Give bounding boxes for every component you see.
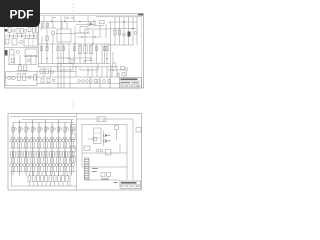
- wire: [59, 142, 61, 148]
- pointer mark: [114, 182, 118, 183]
- wire: [106, 67, 108, 77]
- resistor RB3: [33, 152, 35, 158]
- transistor QB0: [13, 139, 16, 142]
- diode DA4: [36, 164, 39, 167]
- wire: [112, 52, 114, 63]
- wire array top bus: [10, 116, 76, 118]
- wire: [108, 69, 125, 71]
- wire lowest bus: [12, 185, 77, 187]
- wire: [72, 142, 74, 148]
- wire step: [97, 64, 99, 71]
- title text: [132, 82, 140, 83]
- diode DA1: [16, 164, 19, 167]
- relay detail: [32, 39, 34, 47]
- wire: [35, 55, 37, 65]
- wire: [49, 172, 51, 176]
- transistor Q5: [93, 21, 96, 24]
- connector J1: [5, 29, 8, 32]
- wire: [96, 67, 98, 77]
- wire: [70, 136, 73, 138]
- wire: [62, 167, 64, 172]
- transistor QA1: [16, 139, 19, 142]
- wire: [123, 17, 125, 45]
- resistor R101: [18, 127, 20, 132]
- wire column spine: [12, 123, 14, 176]
- transistor Q13: [97, 80, 100, 83]
- wire: [114, 17, 116, 45]
- resistor R27: [18, 74, 21, 81]
- diode D20: [93, 137, 97, 141]
- label text: [53, 17, 56, 18]
- node: [94, 36, 95, 37]
- wire: [20, 158, 22, 164]
- wire: [56, 33, 76, 35]
- title text: [126, 186, 129, 187]
- resistor power: [78, 46, 81, 54]
- transistor QB6: [52, 139, 55, 142]
- wire: [84, 29, 86, 44]
- diode DB7: [59, 164, 62, 167]
- resistor RB0: [14, 152, 16, 158]
- pin header rung: [85, 169, 90, 171]
- wire: [33, 142, 35, 148]
- wire: [75, 67, 77, 77]
- pin header rung: [85, 162, 90, 164]
- wire: [74, 44, 76, 64]
- title block top sheet: [120, 78, 142, 89]
- connector CN2: [136, 128, 141, 133]
- title block divider: [129, 185, 131, 189]
- wire: [123, 76, 125, 77]
- wire: [43, 167, 45, 172]
- wire: [17, 158, 19, 164]
- bottom schematic border frame: [8, 114, 142, 191]
- resistor RB5: [46, 152, 48, 158]
- diode DB3: [33, 164, 36, 167]
- diode bridge D4: [78, 80, 81, 83]
- wire: [54, 182, 56, 186]
- wire: [66, 167, 68, 172]
- wire: [37, 172, 39, 176]
- node: [87, 69, 88, 70]
- top schematic inner right border: [140, 14, 142, 88]
- wire column spine: [32, 120, 34, 176]
- resistor RA5: [43, 152, 45, 158]
- wire: [76, 24, 96, 26]
- transistor QA9: [68, 139, 71, 142]
- fold mark top: [72, 3, 75, 5]
- wire stepped bus: [22, 119, 74, 121]
- wire: [57, 77, 59, 88]
- resistor RC8: [62, 176, 65, 182]
- wire stepped bus: [13, 122, 74, 124]
- wire column spine: [51, 123, 53, 176]
- diode bridge D5: [82, 80, 85, 83]
- diode DA5: [42, 164, 45, 167]
- transistor QA5: [42, 139, 45, 142]
- wire: [46, 137, 48, 139]
- wire: [85, 44, 87, 64]
- resistor RB9: [72, 152, 74, 158]
- diode DA3: [29, 164, 32, 167]
- inductor L9: [73, 128, 75, 130]
- wire: [46, 158, 48, 164]
- wire: [49, 137, 51, 139]
- wire: [128, 17, 130, 45]
- wire column spine: [45, 120, 47, 176]
- wire: [30, 137, 32, 139]
- capacitor C17: [47, 23, 49, 27]
- wire: [56, 142, 58, 148]
- resistor: [46, 47, 48, 51]
- resistor power: [89, 46, 92, 54]
- transistor Q15: [134, 32, 137, 35]
- resistor: [103, 47, 105, 51]
- wire: [33, 182, 35, 186]
- resistor RC9: [66, 176, 69, 182]
- transistor QA4: [36, 139, 39, 142]
- wire: [49, 182, 51, 186]
- fold mark middle: [72, 107, 75, 109]
- component cluster: [101, 173, 105, 177]
- wire: [72, 137, 74, 139]
- wire column spine: [71, 120, 73, 176]
- pin header rung: [85, 159, 90, 161]
- transistor Q21: [103, 134, 106, 137]
- wire: [31, 136, 34, 138]
- transistor QB4: [39, 139, 42, 142]
- wire: [110, 28, 137, 30]
- transistor QB7: [59, 139, 62, 142]
- transistor Q24: [100, 149, 103, 152]
- resistor R105: [44, 127, 46, 132]
- wire: [10, 158, 12, 164]
- inductor L7: [60, 128, 62, 130]
- wire: [88, 138, 93, 140]
- transistor Q1: [12, 29, 15, 32]
- resistor RC4: [45, 176, 48, 182]
- wire: [30, 142, 32, 148]
- resistor R103: [31, 127, 33, 132]
- wire: [62, 142, 64, 148]
- capacitor C22: [71, 146, 76, 152]
- transistor Q9: [8, 76, 12, 80]
- inductor L4: [40, 128, 42, 130]
- label text: [101, 179, 109, 180]
- wire: [69, 67, 71, 77]
- wire: [61, 22, 63, 30]
- resistor R7: [6, 39, 10, 44]
- wire: [89, 179, 120, 181]
- wire: [41, 36, 43, 44]
- fold mark top: [72, 7, 75, 9]
- wire: [82, 152, 127, 154]
- wire: [36, 33, 38, 39]
- wire: [24, 56, 38, 58]
- resistor: [40, 47, 42, 51]
- diode D3: [10, 50, 15, 56]
- wire: [24, 33, 26, 39]
- inductor L3: [34, 128, 36, 130]
- wire: [63, 136, 66, 138]
- resistor R3: [20, 29, 23, 34]
- transistor Q12: [51, 70, 54, 73]
- wire: [13, 55, 15, 65]
- component cluster: [107, 173, 111, 177]
- transistor Q10: [12, 76, 16, 80]
- transistor Q21 emitter: [105, 135, 107, 136]
- transistor QA0: [10, 139, 13, 142]
- wire: [53, 142, 55, 148]
- wire: [23, 142, 25, 148]
- wire: [5, 47, 39, 49]
- node: [46, 43, 47, 44]
- wire: [57, 67, 59, 77]
- wire: [33, 167, 35, 172]
- wire: [45, 172, 47, 176]
- wire: [27, 167, 29, 172]
- wire: [69, 77, 71, 88]
- wire step: [79, 67, 81, 70]
- wire: [17, 137, 19, 139]
- pin header J3: [85, 158, 90, 180]
- wire: [119, 17, 121, 45]
- label text: [66, 18, 69, 19]
- wire: [45, 182, 47, 186]
- resistor RB6: [53, 152, 55, 158]
- capacitor C9: [24, 66, 27, 70]
- resistor RA7: [56, 152, 58, 158]
- wire: [64, 15, 66, 21]
- title text: [121, 186, 124, 187]
- title text: [136, 186, 140, 187]
- resistor R29: [34, 75, 37, 81]
- wire: [36, 137, 38, 139]
- wire: [136, 17, 138, 45]
- wire: [43, 15, 45, 21]
- diode DB2: [26, 164, 29, 167]
- wire: [46, 142, 48, 148]
- title block divider: [120, 84, 142, 86]
- wire: [59, 137, 61, 139]
- wire: [49, 142, 51, 148]
- transistor Q11: [28, 76, 31, 79]
- wire: [101, 44, 103, 64]
- fuse F1: [97, 117, 106, 122]
- wire: [52, 44, 54, 64]
- title text: [121, 86, 124, 87]
- node: [75, 66, 76, 67]
- wire: [69, 158, 71, 164]
- wire: [41, 172, 43, 176]
- wire: [87, 15, 89, 21]
- wire: [10, 137, 12, 139]
- resistor R100: [12, 127, 14, 132]
- wire: [17, 70, 28, 72]
- wire: [69, 142, 71, 148]
- node: [19, 64, 20, 65]
- wire: [17, 167, 19, 172]
- pin header rung: [85, 174, 90, 176]
- node: [74, 43, 75, 44]
- wire: [52, 34, 54, 44]
- wire: [50, 67, 52, 77]
- fuse contact: [98, 118, 100, 120]
- resistor R37: [121, 67, 125, 70]
- resistor: [95, 47, 97, 51]
- resistor R107: [57, 127, 59, 132]
- transistor QB2: [26, 139, 29, 142]
- wire: [21, 33, 23, 39]
- diode DA0: [10, 164, 13, 167]
- node: [90, 58, 91, 59]
- capacitor C14: [41, 79, 44, 83]
- diode DA2: [23, 164, 26, 167]
- pin header rung: [85, 178, 90, 180]
- capacitor C21: [71, 134, 76, 140]
- node: [64, 21, 65, 22]
- IC detail: [94, 132, 102, 134]
- wire: [40, 167, 42, 172]
- diode DB1: [20, 164, 23, 167]
- wire: [33, 172, 35, 176]
- wire: [8, 55, 10, 65]
- resistor RC7: [57, 176, 60, 182]
- wire: [38, 66, 119, 68]
- resistor R106: [51, 127, 53, 132]
- fold mark middle: [72, 104, 75, 106]
- wire: [44, 136, 47, 138]
- wire: [66, 137, 68, 139]
- wire: [73, 15, 75, 21]
- wire: [66, 182, 68, 186]
- resistor R4: [33, 27, 36, 34]
- svg-text:PDF: PDF: [10, 7, 34, 21]
- wire: [77, 36, 102, 38]
- wire: [101, 67, 103, 77]
- wire: [41, 182, 43, 186]
- transistor Q4: [88, 22, 91, 25]
- IC U1: [57, 29, 71, 42]
- wire: [77, 118, 98, 120]
- wire: [66, 158, 68, 164]
- wire: [108, 44, 133, 46]
- pcb outline box: [82, 125, 127, 168]
- wire: [68, 44, 70, 64]
- wire: [38, 22, 40, 67]
- wire step: [80, 69, 98, 71]
- title block divider: [120, 184, 141, 186]
- wire: [63, 67, 65, 77]
- IC U4: [84, 146, 90, 151]
- wire: [5, 35, 38, 37]
- wire: [52, 22, 54, 29]
- transistor QA2: [23, 139, 26, 142]
- wire: [14, 137, 16, 139]
- transistor QB1: [20, 139, 23, 142]
- wire: [56, 158, 58, 164]
- wire: [66, 22, 68, 30]
- diode DB5: [46, 164, 49, 167]
- transistor Q22 emitter: [105, 140, 107, 141]
- wire: [118, 75, 120, 77]
- wire: [36, 167, 38, 172]
- transistor QA8: [62, 139, 65, 142]
- resistor RC5: [49, 176, 52, 182]
- wire: [29, 33, 31, 39]
- wire: [89, 77, 91, 88]
- wire column spine: [38, 123, 40, 176]
- PDF badge: [0, 0, 40, 27]
- wire: [46, 167, 48, 172]
- resistor R35: [95, 80, 97, 83]
- resistor RA6: [50, 152, 52, 158]
- wire: [116, 67, 118, 77]
- resistor power: [84, 46, 87, 54]
- IC U2: [58, 64, 74, 71]
- title text: [126, 86, 129, 87]
- label text: [92, 168, 98, 169]
- wire: [43, 137, 45, 139]
- wire: [33, 158, 35, 164]
- connector J2: [5, 50, 8, 56]
- inductor L2: [27, 128, 29, 130]
- wire: [25, 55, 27, 65]
- title block divider: [134, 185, 136, 189]
- transistor QB8: [65, 139, 68, 142]
- resistor R38: [71, 60, 73, 64]
- wire: [87, 67, 89, 77]
- wire: [56, 167, 58, 172]
- wire: [36, 158, 38, 164]
- wire: [37, 136, 40, 138]
- relay detail: [28, 39, 30, 47]
- pin header rung: [85, 176, 90, 178]
- capacitor C8: [19, 66, 22, 70]
- resistor R6: [46, 36, 48, 41]
- title text: [121, 78, 138, 80]
- wire: [69, 172, 71, 187]
- wire: [69, 137, 71, 139]
- wire: [17, 142, 19, 148]
- wire: [84, 28, 110, 30]
- diode DB4: [39, 164, 42, 167]
- wire: [50, 136, 53, 138]
- node: [9, 35, 10, 36]
- node: [68, 58, 69, 59]
- wire: [43, 67, 45, 77]
- inductor L0: [14, 128, 16, 130]
- wire: [40, 137, 42, 139]
- transistor Q4L: [16, 50, 19, 53]
- title text: [131, 186, 134, 187]
- transistor Q5L: [28, 59, 31, 62]
- node: [92, 43, 93, 44]
- wire: [99, 26, 101, 37]
- wire: [20, 142, 22, 148]
- transistor Q3: [19, 40, 22, 43]
- pin header rung: [85, 167, 90, 169]
- transistor Q17: [52, 79, 55, 82]
- wire: [54, 172, 56, 176]
- wire: [111, 67, 113, 77]
- resistor RA1: [17, 152, 19, 158]
- transistor QA3: [29, 139, 32, 142]
- title block divider: [120, 80, 142, 82]
- diode DA7: [55, 164, 58, 167]
- wire: [57, 44, 59, 64]
- wire: [36, 142, 38, 148]
